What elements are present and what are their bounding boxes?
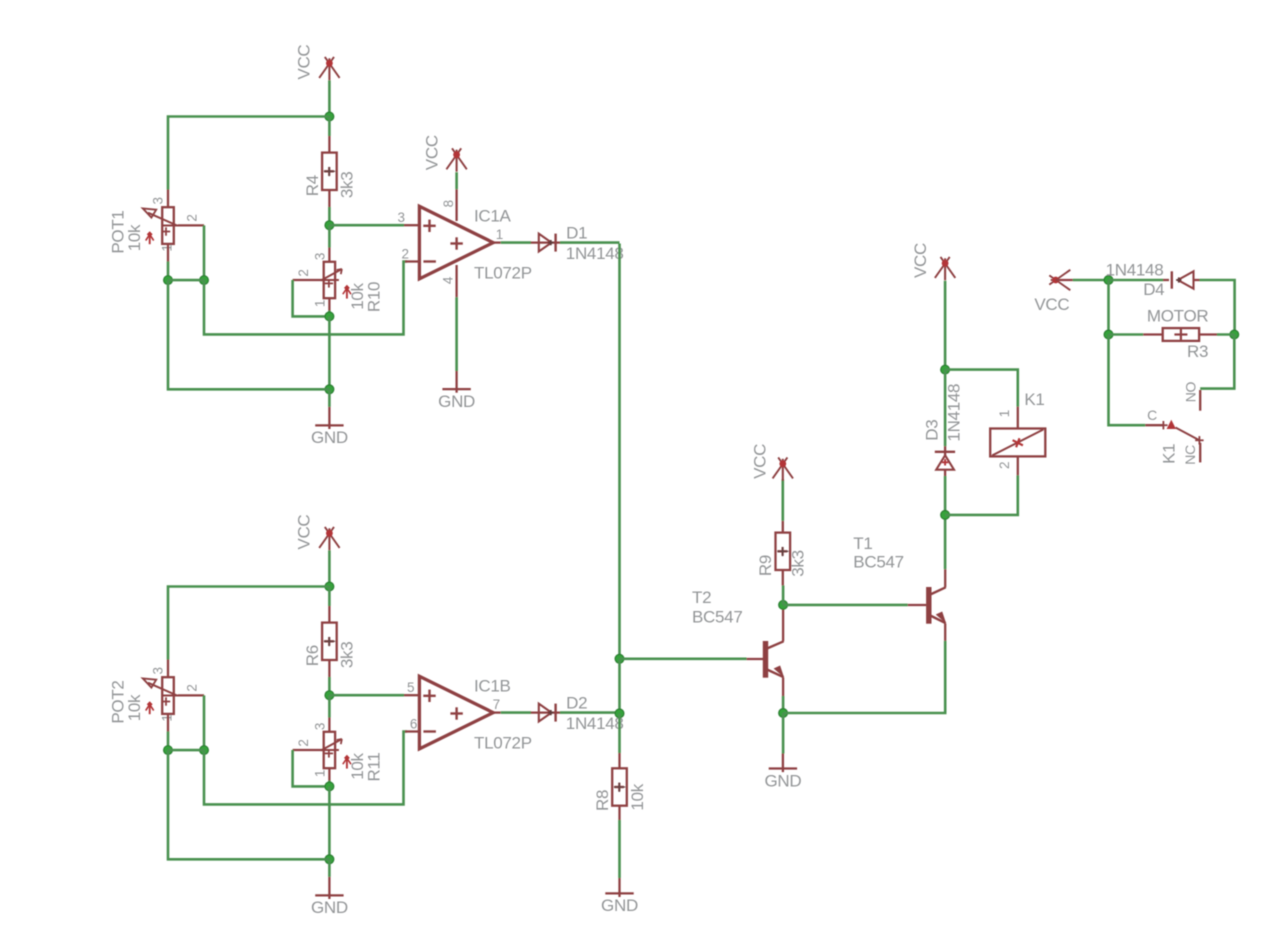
transistor T2 <box>763 641 768 678</box>
resistor R9 <box>776 533 791 570</box>
svg-text:5: 5 <box>407 680 414 695</box>
node bus / T2 base <box>615 654 624 663</box>
wire emitter node to GND <box>782 713 785 754</box>
wire GND rail stem 1 <box>328 389 331 407</box>
pin wire T2 collector <box>782 608 784 641</box>
pin wire R8 bottom <box>618 806 620 820</box>
svg-text:1: 1 <box>997 410 1012 417</box>
svg-text:2: 2 <box>296 269 311 276</box>
svg-text:BC547: BC547 <box>853 552 903 571</box>
svg-text:3: 3 <box>398 210 405 225</box>
node POT2 pin1 <box>164 746 173 755</box>
potentiometer POT2 <box>162 677 174 714</box>
wire node to R6 <box>328 587 331 607</box>
wire node to R11 pin 3 <box>328 695 331 717</box>
relay coil K1 <box>990 429 1045 457</box>
node GND rail 1 <box>325 385 334 394</box>
ground GND2a <box>328 877 330 899</box>
wire R10 pin2 loop <box>293 280 330 316</box>
pin wire op-amp +in <box>404 694 419 696</box>
pin wire R4 top <box>328 136 330 153</box>
wire right rail to NO <box>1200 335 1234 389</box>
svg-text:1: 1 <box>313 770 328 777</box>
wire POT2 pin1-pin2 tie <box>168 749 204 752</box>
svg-text:10k: 10k <box>628 783 647 810</box>
wire VCC to IC1A pin 8 <box>455 172 458 189</box>
svg-text:T2: T2 <box>692 588 711 607</box>
pin wire IC1A pin 4 (V-) <box>455 265 457 297</box>
svg-text:IC1B: IC1B <box>474 676 511 695</box>
svg-text:K1: K1 <box>1024 390 1044 409</box>
pin wire POT2 pin 2 <box>178 694 204 696</box>
svg-text:6: 6 <box>410 716 417 731</box>
node bus / D2 / R8 <box>615 709 624 718</box>
wire IC1A pin 4 to GND <box>455 297 458 371</box>
svg-text:D3: D3 <box>923 420 942 441</box>
node R11 1-2 tie <box>325 782 334 791</box>
resistor R8 <box>612 768 627 805</box>
resistor R4 <box>322 153 337 190</box>
wire node to motor R3 <box>1109 333 1144 336</box>
ground GND1a <box>328 407 330 429</box>
pin wire op-amp -in <box>405 260 419 262</box>
wire POT2 node to op-amp -in <box>204 732 407 805</box>
wire POT1 pin1 down <box>167 262 170 281</box>
svg-text:C: C <box>1147 407 1157 423</box>
wire POT1 node to op-amp -in <box>204 262 407 335</box>
pin wire R3 left <box>1143 333 1163 335</box>
pin wire R3 right <box>1199 333 1217 335</box>
wire node to D3 cathode <box>944 370 947 447</box>
wire R11 node down <box>328 786 331 859</box>
wire bus node to T2 base <box>620 657 747 660</box>
svg-text:NC: NC <box>1182 445 1198 465</box>
svg-text:D4: D4 <box>1143 280 1164 299</box>
op-amp IC1B <box>419 676 493 749</box>
wire op-amp out to diode D1 <box>501 241 531 244</box>
svg-text:2: 2 <box>402 246 409 261</box>
wire R11 pin2 loop <box>293 750 330 786</box>
svg-text:GND: GND <box>764 771 801 790</box>
node POT1 pin1 <box>164 276 173 285</box>
wire diode D2 to bus <box>560 711 620 714</box>
wire output bus vertical <box>618 244 621 659</box>
wire node down to contact C <box>1109 335 1146 426</box>
svg-text:TL072P: TL072P <box>474 263 532 282</box>
svg-text:R4: R4 <box>303 175 322 196</box>
pin wire POT1 pin 1 <box>167 244 169 262</box>
op-amp IC1A <box>419 206 493 279</box>
svg-text:R3: R3 <box>1187 342 1208 361</box>
trimmer R10 <box>324 262 335 298</box>
svg-text:1N4148: 1N4148 <box>945 384 964 442</box>
svg-text:3k3: 3k3 <box>337 642 356 669</box>
svg-text:2: 2 <box>184 684 199 691</box>
pin wire R10 pin 3 <box>328 248 330 262</box>
wire POT2 pin2 down <box>203 695 206 750</box>
svg-text:D2: D2 <box>566 693 587 712</box>
svg-text:IC1A: IC1A <box>474 206 512 225</box>
svg-text:GND: GND <box>311 898 348 917</box>
transistor T1 <box>926 587 931 624</box>
wire POT2 pin1 down <box>167 732 170 751</box>
wire node to R10 pin 3 <box>328 225 331 247</box>
wire node to K1 coil pin1 <box>945 370 1018 407</box>
pin wire VCC (motor) <box>1056 279 1073 281</box>
pin wire R11 pin 2 <box>293 749 324 751</box>
motor R3 <box>1163 328 1199 341</box>
wire node to POT2 pin 3 <box>168 587 329 660</box>
ground GND (IC1A) <box>455 371 457 393</box>
pin wire POT1 pin 3 <box>167 190 169 208</box>
svg-text:R10: R10 <box>365 282 384 312</box>
trimmer R11 <box>324 732 335 768</box>
wire POT1 pin1-pin2 tie <box>168 279 204 282</box>
diode D2 <box>531 711 561 713</box>
svg-text:K1: K1 <box>1160 444 1179 464</box>
pin wire op-amp output <box>493 241 501 243</box>
svg-text:1: 1 <box>313 300 328 307</box>
diode D1 <box>531 241 561 243</box>
pin wire R6 bottom <box>328 660 330 677</box>
pin wire R8 top <box>618 753 620 768</box>
wire R11 pin1 to node <box>328 781 331 787</box>
wire R8 to GND <box>618 820 621 878</box>
svg-text:VCC: VCC <box>295 45 314 80</box>
svg-text:8: 8 <box>441 200 456 207</box>
svg-text:MOTOR: MOTOR <box>1147 307 1208 326</box>
svg-text:1: 1 <box>496 227 503 242</box>
trimmer R10 adjust arrow <box>346 289 348 299</box>
svg-text:1N4148: 1N4148 <box>566 244 624 263</box>
pin wire POT2 pin 1 <box>167 714 169 732</box>
power VCC net symbol (relay) <box>935 257 950 278</box>
wire POT1 node to GND rail <box>168 280 329 389</box>
svg-text:GND: GND <box>311 428 348 447</box>
pin wire K1 contact NO <box>1199 390 1201 411</box>
wire op-amp out to diode D2 <box>501 711 531 714</box>
pin wire T1 emitter <box>944 624 946 641</box>
node VCC/R6/POT2 <box>325 582 334 591</box>
svg-text:D1: D1 <box>566 223 587 242</box>
wire diode D1 to bus <box>560 241 620 244</box>
pin wire R11 pin 1 <box>328 768 330 780</box>
svg-text:T1: T1 <box>853 534 872 553</box>
power VCC net symbol (motor) <box>1049 270 1070 285</box>
wire POT1 pin2 down <box>203 225 206 280</box>
potentiometer POT1 adjust arrow <box>149 235 151 244</box>
diode D3 <box>944 446 946 455</box>
svg-text:BC547: BC547 <box>692 607 742 626</box>
pin wire R9 top <box>782 521 784 533</box>
svg-text:3k3: 3k3 <box>337 172 356 199</box>
pin wire op-amp output <box>493 711 501 713</box>
wire node to op-amp +in <box>329 694 404 697</box>
wire node to R9 <box>782 585 785 605</box>
resistor R6 <box>322 623 337 660</box>
pin wire T2 emitter <box>782 678 784 697</box>
node R4/R10/op-amp +in <box>325 221 334 230</box>
wire node to POT1 pin 3 <box>168 117 329 190</box>
wire D3 anode to node <box>944 476 947 515</box>
pin wire K1 coil pin 1 <box>1017 407 1019 429</box>
svg-text:7: 7 <box>493 697 500 712</box>
svg-text:4: 4 <box>440 276 455 284</box>
wire bus to D2 node <box>618 659 621 714</box>
svg-text:R9: R9 <box>756 555 775 576</box>
svg-text:1N4148: 1N4148 <box>1106 260 1164 279</box>
wire VCC to node <box>1073 279 1109 282</box>
node D3 / K1 coil / T1 collector <box>941 511 950 520</box>
svg-text:2: 2 <box>184 214 199 221</box>
trimmer R11 adjust arrow <box>346 759 348 769</box>
pin wire R11 pin 3 <box>328 718 330 732</box>
wire POT2 node to GND rail <box>168 750 329 859</box>
pin wire POT2 pin 3 <box>167 660 169 678</box>
pin wire R10 pin 1 <box>328 298 330 310</box>
potentiometer POT2 adjust arrow <box>149 705 151 714</box>
svg-text:10k: 10k <box>125 224 144 251</box>
node T2 emitter / T1 emitter <box>779 709 788 718</box>
wire R9 to VCC <box>781 479 784 521</box>
node VCC/R4/POT1 <box>325 112 334 121</box>
wire D4 to right rail <box>1200 280 1235 335</box>
pin wire R10 pin 2 <box>293 279 324 281</box>
pin wire R9 bottom <box>782 570 784 585</box>
svg-text:3: 3 <box>313 253 328 260</box>
wire R10 pin1 to node <box>328 311 331 317</box>
svg-text:10k: 10k <box>125 694 144 721</box>
svg-text:1N4148: 1N4148 <box>566 714 624 733</box>
wire VCC to node <box>328 80 331 116</box>
node GND rail 2 <box>325 855 334 864</box>
ground GND (R8) <box>618 878 620 897</box>
pin wire op-amp +in <box>404 224 419 226</box>
svg-text:GND: GND <box>438 392 475 411</box>
node R6/R11/op-amp +in <box>325 691 334 700</box>
wire node to op-amp +in <box>329 224 404 227</box>
wire R3 to right rail <box>1217 333 1234 336</box>
svg-text:2: 2 <box>296 739 311 746</box>
pin wire T1 base <box>908 604 927 606</box>
wire node to R4 <box>328 117 331 137</box>
potentiometer POT1 <box>162 207 174 244</box>
power VCC net symbol (R9) <box>773 457 788 478</box>
pin wire POT1 pin 2 <box>178 224 204 226</box>
pin wire op-amp -in <box>405 730 419 732</box>
svg-text:NO: NO <box>1182 381 1198 402</box>
svg-text:VCC: VCC <box>750 444 769 479</box>
power VCC net symbol (R6 branch) <box>319 527 334 548</box>
pin wire K1 contact NC <box>1199 443 1201 463</box>
ground GND (T2) <box>782 754 784 773</box>
wire node to T1 base <box>783 604 908 607</box>
svg-text:VCC: VCC <box>911 243 930 278</box>
power VCC net symbol (R4 branch) <box>319 57 334 78</box>
svg-text:R11: R11 <box>365 752 384 781</box>
svg-text:TL072P: TL072P <box>474 733 532 752</box>
wire T1 collector up <box>944 515 947 569</box>
pin wire T2 base <box>747 658 763 660</box>
node T2 collector / R9 / T1 base <box>779 601 788 610</box>
wire K1 coil pin2 to node <box>945 475 1018 515</box>
node POT2 pin2 <box>200 746 209 755</box>
wire R4 to node <box>328 207 331 225</box>
pin wire R6 top <box>328 606 330 623</box>
svg-text:2: 2 <box>997 462 1012 469</box>
svg-text:3k3: 3k3 <box>789 550 808 577</box>
wire T1 emitter to node <box>783 641 945 713</box>
wire R10 node down <box>328 316 331 389</box>
svg-text:R6: R6 <box>303 645 322 666</box>
svg-text:R8: R8 <box>593 790 612 811</box>
node POT1 pin2 <box>200 276 209 285</box>
power VCC net symbol (IC1A) <box>446 148 461 169</box>
node VCC / D3 / K1 coil <box>941 365 950 374</box>
wire VCC down to node <box>944 281 947 370</box>
wire node to D4 <box>1109 279 1164 282</box>
wire VCC to node <box>328 550 331 586</box>
svg-text:3: 3 <box>151 667 166 674</box>
svg-text:GND: GND <box>601 896 638 915</box>
wire T2 emitter to node <box>782 696 785 713</box>
pin wire IC1A pin 8 (V+) <box>455 189 457 221</box>
node right rail / motor <box>1230 330 1239 339</box>
node R10 1-2 tie <box>325 312 334 321</box>
svg-text:3: 3 <box>313 723 328 730</box>
wire node down to motor <box>1107 280 1110 335</box>
svg-text:3: 3 <box>151 197 166 204</box>
wire T2 collector to node <box>782 605 785 608</box>
pin wire R4 bottom <box>328 190 330 207</box>
svg-text:VCC: VCC <box>1034 295 1069 314</box>
diode D4 <box>1163 279 1169 281</box>
node motor left <box>1104 330 1113 339</box>
svg-text:VCC: VCC <box>295 515 314 550</box>
wire node to R8 <box>618 713 621 753</box>
wire R6 to node <box>328 677 331 695</box>
relay contact K1 <box>1145 424 1163 426</box>
node VCC / D4 / motor rail <box>1104 276 1113 285</box>
wire GND rail stem 2 <box>328 859 331 877</box>
svg-text:VCC: VCC <box>422 135 441 170</box>
pin wire T1 collector <box>944 569 946 587</box>
pin wire K1 coil pin 2 <box>1017 456 1019 475</box>
